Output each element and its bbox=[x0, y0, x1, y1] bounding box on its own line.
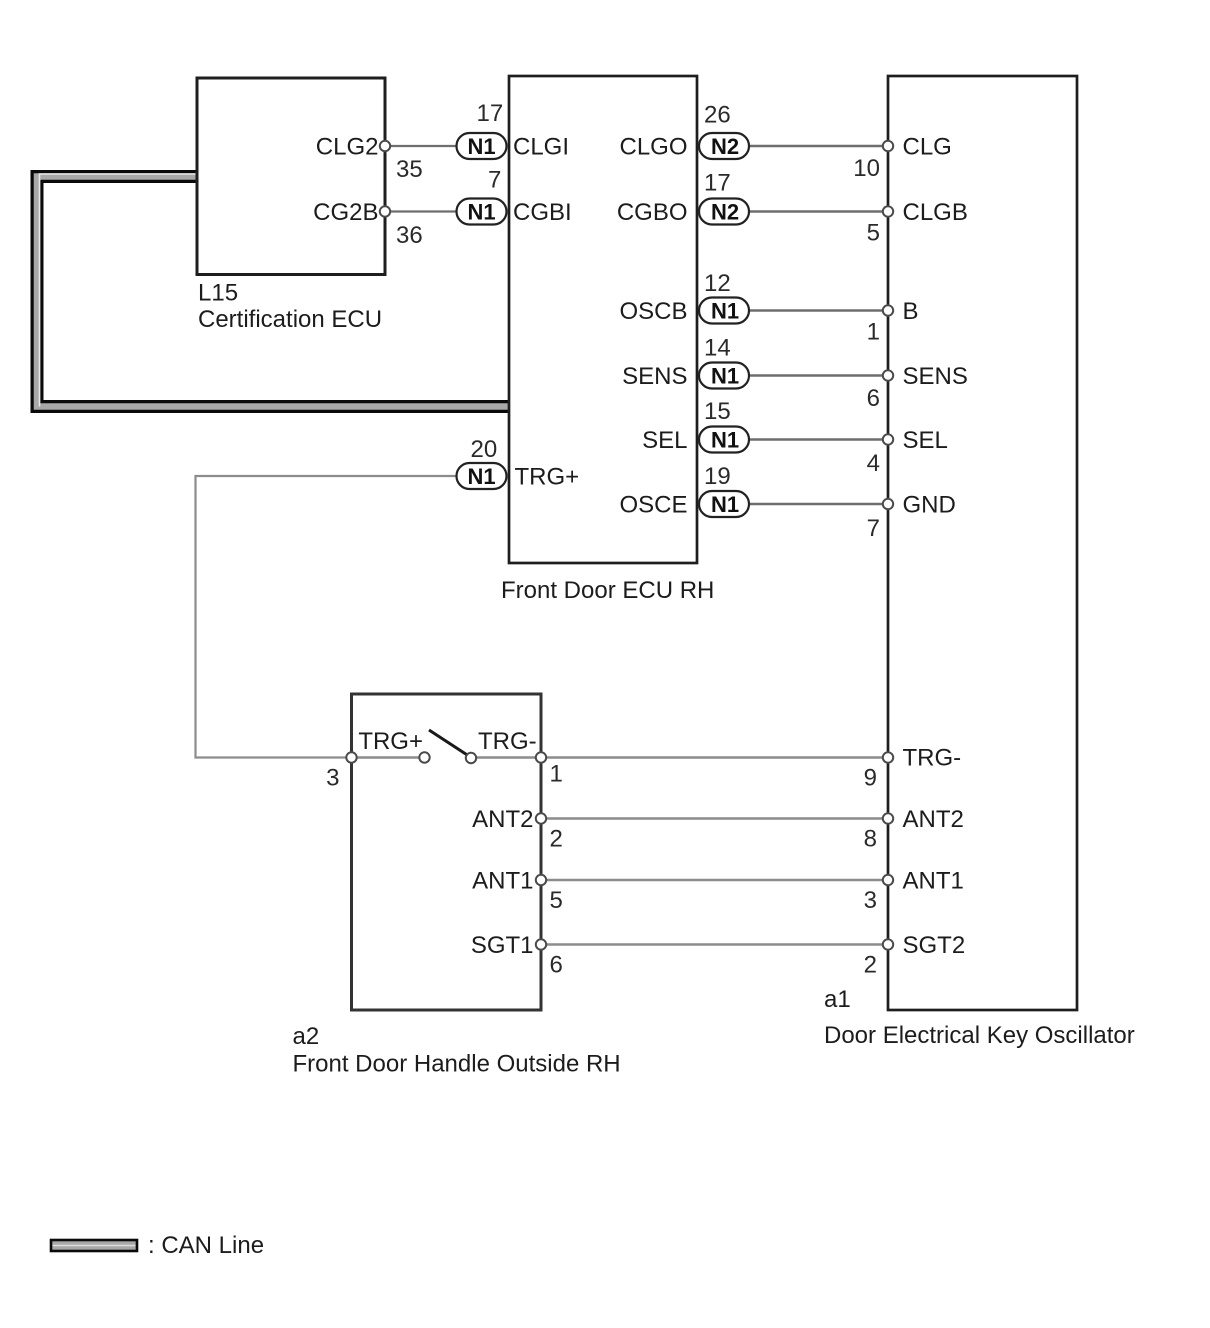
svg-text:CLGO: CLGO bbox=[619, 134, 687, 161]
svg-text:TRG+: TRG+ bbox=[358, 728, 423, 755]
svg-text:26: 26 bbox=[704, 102, 731, 129]
svg-text:14: 14 bbox=[704, 335, 731, 362]
switch blade TRG+/TRG- bbox=[429, 730, 467, 755]
svg-text:CLG2: CLG2 bbox=[316, 134, 379, 161]
connector oval N1 pin 14 (SENS) bbox=[699, 363, 749, 389]
svg-text:N1: N1 bbox=[711, 299, 739, 324]
certification ECU L15 box bbox=[197, 78, 385, 275]
svg-text:TRG-: TRG- bbox=[903, 745, 962, 772]
svg-text:OSCE: OSCE bbox=[619, 492, 687, 519]
svg-text:N1: N1 bbox=[467, 200, 495, 225]
svg-text:SGT2: SGT2 bbox=[903, 932, 966, 959]
terminal circle SEL 4 bbox=[883, 434, 893, 444]
svg-text:8: 8 bbox=[864, 826, 877, 853]
svg-text:GND: GND bbox=[903, 492, 956, 519]
wire ANT1 to oscillator terminal 3 bbox=[541, 879, 888, 882]
terminal circle ANT2 8 bbox=[883, 813, 893, 823]
wire TRG- to oscillator terminal 9 bbox=[541, 756, 888, 759]
wire OSCB to B bbox=[749, 309, 888, 311]
svg-text:CLGI: CLGI bbox=[513, 134, 569, 161]
svg-text:CGBO: CGBO bbox=[617, 199, 688, 226]
svg-text:7: 7 bbox=[867, 515, 880, 542]
terminal circle handle 3 bbox=[346, 752, 356, 762]
wire CLGO to CLG bbox=[749, 145, 888, 147]
svg-text:CG2B: CG2B bbox=[313, 199, 378, 226]
wire TRG+ from ECU to handle terminal 3 bbox=[196, 476, 457, 758]
svg-text:Certification ECU: Certification ECU bbox=[198, 306, 382, 333]
wire OSCE to GND bbox=[749, 503, 888, 505]
connector oval N1 pin 7 (CGBI) bbox=[457, 199, 507, 225]
svg-text:SENS: SENS bbox=[903, 363, 968, 390]
svg-text:N1: N1 bbox=[467, 464, 495, 489]
svg-text:2: 2 bbox=[864, 952, 877, 979]
connector oval N1 pin 15 (SEL) bbox=[699, 427, 749, 453]
svg-text:CLG: CLG bbox=[903, 134, 952, 161]
wire CG2B to CGBI bbox=[385, 210, 457, 212]
terminal circle handle 6 bbox=[536, 939, 546, 949]
terminal circle CLG2 bbox=[380, 141, 390, 151]
connector oval N1 pin 12 (OSCB) bbox=[699, 298, 749, 324]
legend CAN line swatch bbox=[51, 1240, 137, 1251]
svg-text:a1: a1 bbox=[824, 986, 851, 1013]
wire TRG- contact to handle terminal 1 bbox=[476, 756, 541, 759]
front door handle outside RH a2 box bbox=[352, 694, 542, 1010]
wire SENS to SENS bbox=[749, 374, 888, 376]
svg-text:ANT2: ANT2 bbox=[472, 806, 533, 833]
svg-text:5: 5 bbox=[867, 220, 880, 247]
connector oval N1 pin 17 (CLGI) bbox=[457, 133, 507, 159]
terminal circle handle 2 bbox=[536, 813, 546, 823]
terminal circle SGT2 2 bbox=[883, 939, 893, 949]
svg-text:N1: N1 bbox=[711, 364, 739, 389]
svg-text:5: 5 bbox=[550, 887, 563, 914]
svg-text:CLGB: CLGB bbox=[903, 199, 968, 226]
terminal circle TRG- 9 bbox=[883, 752, 893, 762]
svg-text:6: 6 bbox=[550, 952, 563, 979]
terminal circle SENS 6 bbox=[883, 370, 893, 380]
svg-text:SEL: SEL bbox=[903, 427, 948, 454]
connector oval N2 pin 26 (CLGO) bbox=[699, 133, 749, 159]
svg-text:N1: N1 bbox=[711, 428, 739, 453]
svg-text:9: 9 bbox=[864, 765, 877, 792]
svg-text:1: 1 bbox=[550, 761, 563, 788]
svg-text:CGBI: CGBI bbox=[513, 199, 572, 226]
svg-text:7: 7 bbox=[488, 167, 501, 194]
svg-text:N1: N1 bbox=[467, 134, 495, 159]
wire ANT2 to oscillator terminal 8 bbox=[541, 817, 888, 820]
svg-text:17: 17 bbox=[704, 170, 731, 197]
terminal circle CLGB 5 bbox=[883, 206, 893, 216]
svg-text:ANT1: ANT1 bbox=[472, 868, 533, 895]
svg-text:Front Door Handle Outside RH: Front Door Handle Outside RH bbox=[293, 1051, 621, 1078]
wire SGT1 to SGT2 bbox=[541, 943, 888, 946]
switch contact circle TRG+ bbox=[419, 752, 429, 762]
switch contact circle TRG- bbox=[466, 753, 476, 763]
connector oval N1 pin 19 (OSCE) bbox=[699, 491, 749, 517]
svg-text:N2: N2 bbox=[711, 134, 739, 159]
svg-text:1: 1 bbox=[867, 319, 880, 346]
svg-text:a2: a2 bbox=[293, 1023, 320, 1050]
terminal circle handle 1 bbox=[536, 752, 546, 762]
wire switch pole to TRG+ contact bbox=[352, 756, 421, 759]
svg-text:Front Door ECU RH: Front Door ECU RH bbox=[501, 577, 714, 604]
svg-text:15: 15 bbox=[704, 398, 731, 425]
terminal circle CG2B bbox=[380, 206, 390, 216]
svg-text:B: B bbox=[903, 298, 919, 325]
CAN line bus (outer black band) bbox=[37, 177, 509, 407]
svg-text:TRG+: TRG+ bbox=[515, 464, 580, 491]
door electrical key oscillator a1 box bbox=[888, 76, 1077, 1010]
svg-text:Door Electrical Key Oscillator: Door Electrical Key Oscillator bbox=[824, 1022, 1135, 1049]
svg-text:SGT1: SGT1 bbox=[471, 932, 534, 959]
front door ECU RH box bbox=[509, 76, 697, 563]
svg-text:19: 19 bbox=[704, 463, 731, 490]
svg-text:ANT2: ANT2 bbox=[903, 806, 964, 833]
terminal circle CLG 10 bbox=[883, 141, 893, 151]
svg-text:12: 12 bbox=[704, 270, 731, 297]
wire SEL to SEL bbox=[749, 438, 888, 440]
svg-text:L15: L15 bbox=[198, 280, 238, 307]
svg-text:20: 20 bbox=[471, 436, 498, 463]
svg-text:: CAN Line: : CAN Line bbox=[148, 1232, 264, 1259]
svg-text:3: 3 bbox=[864, 887, 877, 914]
svg-text:2: 2 bbox=[550, 826, 563, 853]
connector oval N1 pin 20 (TRG+) bbox=[457, 463, 507, 489]
svg-text:SEL: SEL bbox=[642, 427, 687, 454]
svg-text:TRG-: TRG- bbox=[478, 728, 537, 755]
CAN line bus (inner gray shield) bbox=[37, 177, 509, 407]
svg-text:ANT1: ANT1 bbox=[903, 868, 964, 895]
svg-text:OSCB: OSCB bbox=[619, 298, 687, 325]
svg-text:SENS: SENS bbox=[622, 363, 687, 390]
connector oval N2 pin 17 (CGBO) bbox=[699, 199, 749, 225]
svg-text:10: 10 bbox=[853, 155, 880, 182]
svg-text:6: 6 bbox=[867, 385, 880, 412]
terminal circle B 1 bbox=[883, 305, 893, 315]
terminal circle GND 7 bbox=[883, 499, 893, 509]
svg-text:N1: N1 bbox=[711, 492, 739, 517]
svg-text:35: 35 bbox=[396, 156, 423, 183]
CAN line bus (inner white highlight) bbox=[40, 174, 198, 407]
terminal circle handle 5 bbox=[536, 875, 546, 885]
svg-text:36: 36 bbox=[396, 222, 423, 249]
svg-text:17: 17 bbox=[477, 100, 504, 127]
wire CGBO to CLGB bbox=[749, 210, 888, 212]
svg-text:4: 4 bbox=[867, 450, 880, 477]
terminal circle ANT1 3 bbox=[883, 875, 893, 885]
svg-text:N2: N2 bbox=[711, 200, 739, 225]
wire CLG2 to CLGI bbox=[385, 145, 457, 147]
svg-text:3: 3 bbox=[326, 765, 339, 792]
